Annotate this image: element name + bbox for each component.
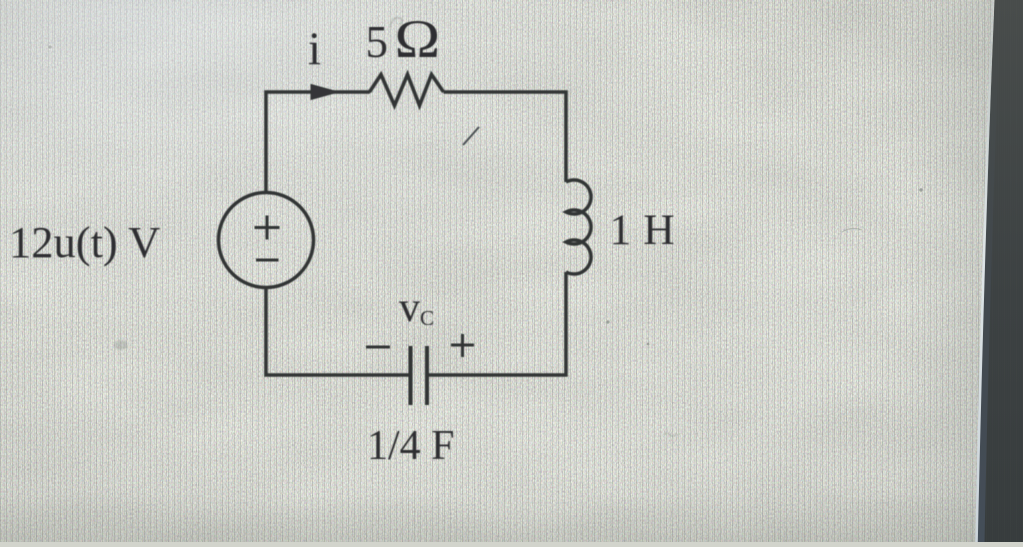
band bright edge line <box>977 0 994 542</box>
circuit drawing <box>219 75 592 406</box>
wire right-bottom <box>429 272 566 375</box>
source U1 circle <box>219 193 314 288</box>
svg-text:1/4 F: 1/4 F <box>367 423 455 469</box>
resistor R 5ohm <box>370 75 444 106</box>
wire bottom-left <box>266 287 409 375</box>
faint dot3 <box>919 188 922 191</box>
faint dust dot top-left <box>48 45 51 48</box>
plus in source <box>255 216 280 240</box>
faint smudge left <box>114 340 128 350</box>
faint smudge right-low <box>664 433 677 436</box>
plus label near capacitor <box>451 334 474 357</box>
dark band right edge <box>978 0 1023 542</box>
band fabric texture <box>978 0 1023 542</box>
faint dot2 <box>647 343 650 346</box>
svg-text:i: i <box>308 23 321 75</box>
faint scratch <box>842 228 862 232</box>
inductor L 1H <box>566 180 591 274</box>
svg-text:Ω: Ω <box>395 9 441 70</box>
wire top-right <box>444 92 567 182</box>
wire left-top <box>266 92 370 193</box>
faint dot <box>606 320 609 323</box>
minus in source <box>256 259 279 262</box>
capacitor C left plate <box>409 346 413 405</box>
svg-text:5: 5 <box>366 17 389 67</box>
svg-text:12u(t) V: 12u(t) V <box>9 217 160 267</box>
faint pencil curl above resistor label <box>390 18 402 27</box>
capacitor C right plate <box>425 346 429 405</box>
arrow for current i <box>311 85 338 100</box>
stray pen slash <box>463 127 479 145</box>
minus label near capacitor <box>366 346 390 349</box>
band inner blue strip <box>981 0 998 542</box>
